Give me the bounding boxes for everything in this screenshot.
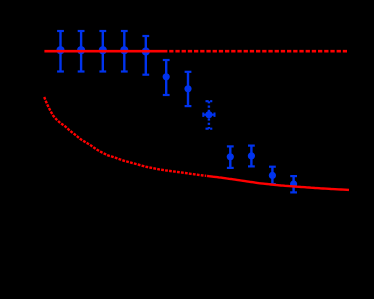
data point P3 [99,31,107,72]
data point P12 [290,176,297,192]
data point P8 [203,101,214,129]
data point P4 [120,31,128,72]
data point P5 [142,36,150,75]
data point P1 [56,31,64,72]
data point P11 [269,167,276,184]
lower red curve dotted segment [44,97,206,176]
upper red line solid segment [44,50,167,53]
data point P10 [248,146,255,167]
data point P9 [227,146,234,168]
upper red line dashed segment [169,50,347,53]
data point P2 [77,31,85,72]
data point P6 [163,60,170,95]
data point P7 [184,72,191,106]
lower red curve solid segment [207,176,349,190]
